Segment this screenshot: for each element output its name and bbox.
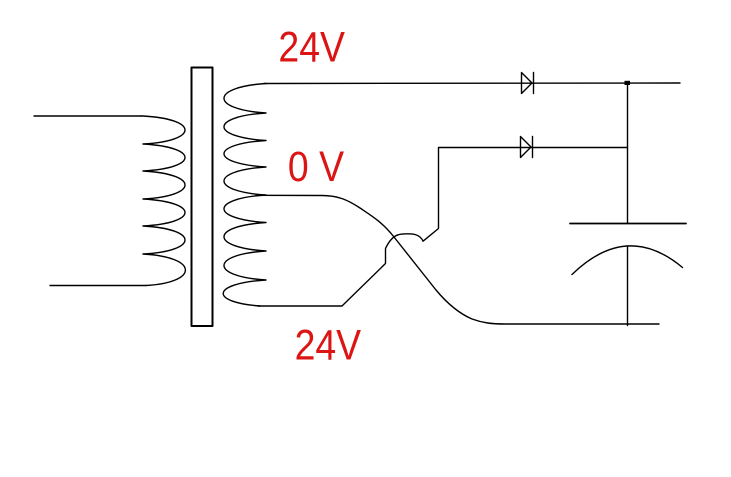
svg-text:24V: 24V [295,323,362,370]
svg-text:0 V: 0 V [288,144,344,191]
wire: capacitor bottom to output rail [627,246,629,326]
transformer primary winding [141,116,185,286]
diode D1 [522,73,534,94]
wire: 0V tap curving down to bottom-right [256,195,659,324]
wire: bottom 24V tap with crossover hop up to D2 [258,148,628,307]
transformer core [192,68,213,327]
wire: vertical from node down to capacitor [627,83,629,224]
capacitor C1 top plate [570,223,686,225]
wire: primary bottom lead [50,285,146,287]
svg-text:24V: 24V [278,24,345,71]
wire: secondary top tap to D1 and node [264,82,680,85]
diode D2 [521,137,533,158]
transformer secondary winding [223,84,266,307]
node junction at top rail [625,81,631,85]
wire: primary top lead [34,115,141,117]
capacitor C1 bottom curved plate [572,246,683,275]
